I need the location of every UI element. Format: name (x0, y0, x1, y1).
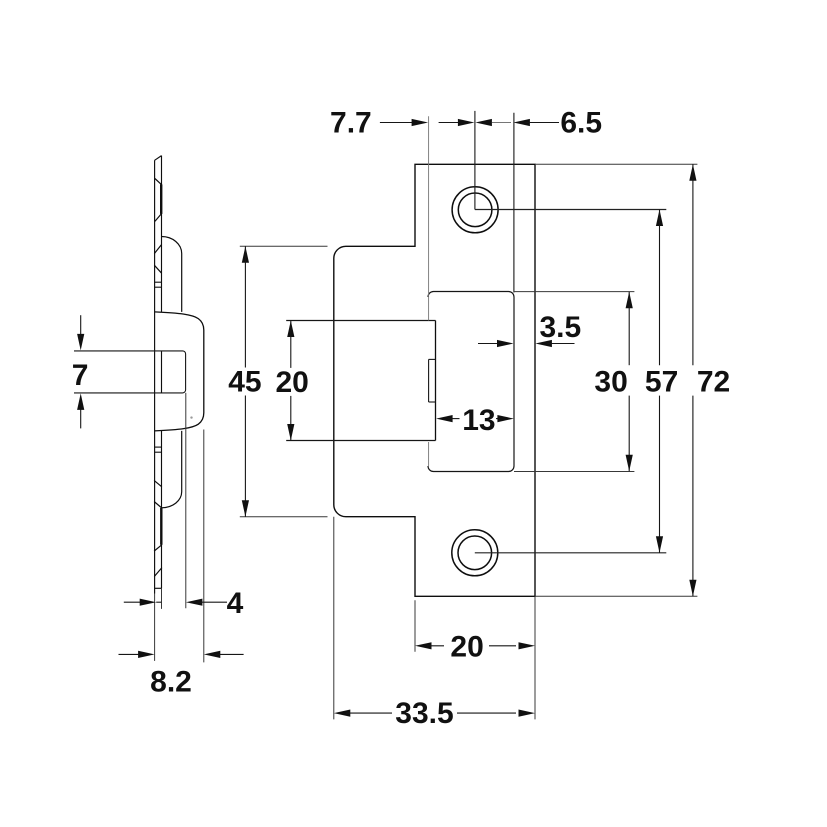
dimension 72 (plate height) (689, 164, 696, 181)
extension line: lip left edge to 33.5 dim (333, 517, 335, 720)
extension of tongue outer face down to 8.2 dim (203, 430, 205, 663)
side view: lip top bend curve (162, 237, 182, 312)
extension stub of plate right edge for 4 dim (161, 588, 163, 609)
svg-text:8.2: 8.2 (150, 665, 192, 698)
svg-text:30: 30 (594, 366, 627, 399)
seam mark diagonal (154, 545, 162, 551)
extension line: bottom hole center to 57 dim (475, 552, 667, 554)
bottom screw hole inner (458, 536, 492, 570)
seam mark diagonal (154, 245, 161, 254)
dimension 30 (opening height) (626, 292, 633, 309)
dimension 33.5 (overall width) (334, 710, 351, 717)
svg-text:20: 20 (450, 630, 483, 663)
side view: plate strip right edge upper segment (161, 156, 163, 312)
side section view: plate strip left edge (154, 160, 156, 593)
dimension 8.2 (tongue projection) (119, 653, 144, 655)
edge tick (155, 451, 162, 453)
svg-text:6.5: 6.5 (560, 107, 602, 140)
extension line: lip top edge to 45 dim (240, 245, 328, 247)
side view: lip lower flat face and bottom bend curve (162, 431, 182, 508)
svg-text:57: 57 (645, 366, 678, 399)
extension line: lip bottom edge to 45 dim (240, 516, 328, 518)
front view: tongue bend notch box (429, 358, 436, 360)
svg-text:33.5: 33.5 (395, 697, 453, 730)
dimension 6.5 (hole center to opening edge) (475, 119, 492, 126)
svg-text:72: 72 (697, 366, 730, 399)
front view: latch opening rounded rect (left edge open) (428, 292, 514, 472)
side view: lanced slot (7mm) outline with rounded end (74, 351, 186, 393)
extension of slot end down to 4 dim (185, 393, 187, 608)
seam mark diagonal (154, 502, 162, 509)
side view: tongue box left edge segment (161, 351, 163, 393)
extension line: opening bottom edge to 30 dim (514, 471, 634, 473)
dimension 20 vertical (tongue height) (287, 321, 294, 338)
front view: tongue right (free) edge (435, 321, 437, 441)
svg-text:3.5: 3.5 (539, 311, 581, 344)
edge tick (155, 446, 162, 448)
svg-text:13: 13 (462, 404, 495, 437)
seam mark diagonal (154, 265, 161, 273)
svg-text:7.7: 7.7 (330, 107, 372, 140)
extension of plate left edge down to 8.2 dim (154, 594, 156, 661)
svg-text:7: 7 (72, 359, 89, 392)
front view: plate + lip outer outline (334, 164, 535, 596)
seam mark diagonal (155, 214, 161, 222)
dimension 57 (hole centers spacing) (656, 210, 663, 227)
extension line: plate bottom edge to 72 dim (535, 595, 697, 597)
dimension 45 (lip height) (242, 246, 249, 262)
extension line: plate right edge to 20/33.5 dims (534, 596, 536, 719)
extension line: top hole center to 57 dim (475, 209, 666, 211)
dimension 3.5 (opening edge to plate edge) (478, 343, 502, 345)
side view: plate bottom end tick (155, 587, 162, 589)
top screw hole outer (countersink) (452, 187, 498, 233)
sheet edge seam mark upper diagonal (155, 179, 161, 185)
front view: tongue bottom edge + 20 dim extension (286, 440, 435, 442)
dimension 7 (slot height) (80, 315, 82, 339)
seam mark diagonal (154, 568, 162, 577)
dimension 20 bottom (plate width) (415, 642, 432, 649)
edge tick (155, 286, 162, 288)
extension line: plate top edge to 72 dim (535, 163, 697, 165)
extension line: opening left edge up to 7.7 dim (428, 116, 430, 320)
bottom screw hole outer (countersink) (452, 530, 498, 576)
dimension 4 (lip offset) (124, 601, 145, 603)
svg-text:20: 20 (276, 366, 309, 399)
edge tick (155, 281, 162, 283)
front view: tongue top edge + 20 dim extension (286, 320, 435, 322)
side view: plate strip right edge lower segment (161, 431, 163, 588)
extension line: hole center line (474, 111, 476, 210)
extension line: opening top edge to 30 dim (514, 291, 634, 293)
svg-text:4: 4 (227, 587, 244, 620)
stray dot artifact (190, 416, 192, 418)
sheet edge seam thick segment lower (160, 508, 162, 545)
seam mark diagonal (154, 480, 162, 486)
latch opening left edge lower thin segment (428, 442, 430, 466)
side view: plate top end slant (155, 156, 162, 161)
top screw hole inner (458, 193, 492, 227)
dimension 13 (tongue edge to opening edge) (436, 415, 453, 422)
sheet edge seam thick segment (160, 184, 162, 214)
extension line: opening right edge up to 6.5 dim (513, 113, 515, 293)
svg-text:45: 45 (228, 366, 261, 399)
side view: curved tongue bump outline (155, 312, 204, 431)
extension line: plate left edge to bottom 20 dim (414, 600, 416, 651)
